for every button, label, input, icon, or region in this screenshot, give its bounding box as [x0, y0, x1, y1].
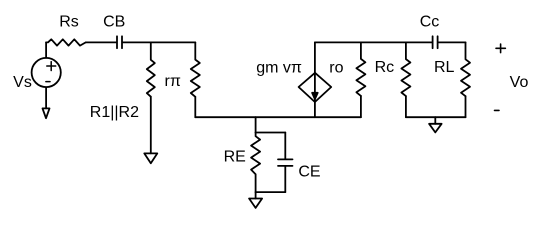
resistor Rc: [401, 42, 410, 96]
label - output: [495, 109, 500, 111]
capacitor CE: [278, 133, 293, 193]
svg-text:rπ: rπ: [165, 73, 181, 90]
svg-text:Vs: Vs: [13, 74, 32, 91]
wire collector node top: [315, 41, 432, 43]
wire CB to rpi node: [123, 41, 195, 43]
wire collector top through current source: [314, 42, 316, 117]
wire emitter node: [195, 116, 361, 118]
ground below Rc/RL: [429, 124, 442, 133]
svg-text:R1||R2: R1||R2: [90, 104, 139, 121]
svg-text:ro: ro: [329, 59, 343, 76]
ground arrow below Vs: [43, 108, 50, 118]
resistor rpi: [191, 42, 200, 96]
label + output: [496, 44, 505, 53]
wire ro bottom: [360, 96, 362, 117]
svg-text:CB: CB: [103, 14, 125, 31]
svg-text:CE: CE: [298, 163, 320, 180]
svg-text:gm vπ: gm vπ: [256, 59, 302, 76]
svg-text:Rs: Rs: [59, 13, 79, 30]
svg-text:Vo: Vo: [510, 74, 529, 91]
wire RL bottom: [465, 96, 467, 117]
wire rpi bottom to emitter node: [194, 97, 196, 117]
wire Vs bottom: [45, 87, 47, 108]
wire RE bottom to ground: [255, 192, 257, 198]
capacitor Cc: [433, 36, 438, 48]
ground below R1||R2: [144, 153, 157, 163]
wire ground stub: [434, 117, 436, 124]
svg-text:Rc: Rc: [375, 59, 395, 76]
resistor R1||R2: [147, 42, 155, 96]
dependent current source gm vpi diamond: [299, 73, 332, 102]
voltage source Vs: [32, 58, 61, 87]
wire R1||R2 to ground: [150, 97, 152, 154]
wire Rs to CB: [86, 41, 116, 43]
wire Cc to RL: [438, 41, 465, 43]
wire RE/CE top connector: [256, 132, 286, 134]
ground below RE: [249, 199, 262, 208]
wire Rc bottom: [405, 96, 407, 117]
capacitor CB: [117, 36, 122, 48]
Vs minus mark: [46, 81, 50, 83]
resistor Rs: [46, 39, 86, 45]
svg-text:Cc: Cc: [420, 13, 440, 30]
Vs plus mark: [47, 62, 56, 71]
resistor ro: [356, 42, 365, 96]
resistor RL: [461, 42, 470, 96]
wire emitter to RE/CE: [255, 117, 257, 132]
wire RE/CE bottom connector: [256, 191, 286, 193]
svg-text:RE: RE: [224, 149, 246, 166]
svg-text:RL: RL: [434, 59, 455, 76]
wire Vs top to Rs: [45, 42, 47, 58]
resistor RE: [251, 133, 260, 193]
current source arrowhead: [312, 93, 318, 99]
wire Rc/RL bottom node: [406, 116, 466, 118]
